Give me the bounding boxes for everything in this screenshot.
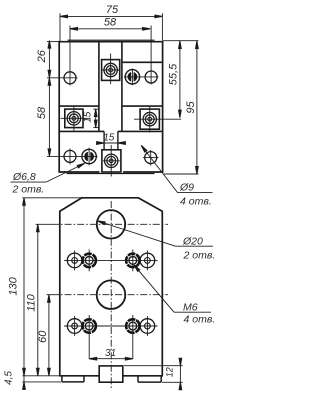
row2 centerline — [64, 325, 158, 327]
small hole vertical centerlines — [75, 250, 148, 359]
top-right block bottom edge — [122, 105, 163, 107]
lower slot wall right — [117, 131, 119, 149]
lower blocks top ledge left — [59, 130, 104, 132]
lower slot wall left — [103, 131, 105, 149]
screw boss square right — [140, 109, 159, 129]
hole bottom-right — [145, 152, 157, 164]
svg-text:110: 110 — [26, 293, 38, 311]
big hole lower — [97, 280, 126, 309]
ext 110 top — [36, 223, 53, 225]
dim 15 bottom line — [97, 142, 126, 144]
bottom view outline — [59, 198, 163, 376]
ext 60 top — [47, 294, 53, 296]
leader dia9 — [141, 145, 177, 192]
screw boss square bottom — [102, 150, 121, 172]
ext 130 top — [22, 197, 84, 199]
svg-text:31: 31 — [105, 348, 116, 359]
arrowheads — [23, 15, 199, 390]
top-left block bottom edge — [59, 105, 99, 107]
bushing top-right dark — [125, 70, 139, 84]
threaded hole r2 right — [126, 319, 139, 332]
svg-text:60: 60 — [37, 330, 49, 343]
vertical axis dash-dot — [110, 201, 112, 389]
svg-text:15: 15 — [82, 111, 93, 123]
svg-text:Ø20: Ø20 — [182, 236, 203, 248]
svg-text:95: 95 — [185, 101, 197, 114]
channel right wall — [121, 42, 123, 132]
ext 15 left top — [93, 108, 98, 110]
big hole upper — [97, 210, 125, 238]
dim 4,5 tail — [23, 376, 25, 390]
ext 12 top — [124, 365, 183, 367]
screw head bottom — [105, 154, 118, 167]
washer r1 left — [67, 253, 82, 268]
dim 55,5 line — [179, 41, 181, 118]
washer r2 left — [67, 319, 82, 334]
threaded hole r1 right — [126, 254, 139, 267]
svg-text:2 отв.: 2 отв. — [183, 250, 216, 262]
svg-text:4 отв.: 4 отв. — [184, 314, 216, 326]
screw head top — [104, 63, 117, 76]
lower blocks top ledge right — [118, 130, 163, 132]
dim 15 left line — [95, 109, 97, 128]
screw boss square top — [102, 60, 120, 81]
dim 110 line — [37, 224, 39, 375]
leader M6 — [134, 265, 174, 312]
dim 95 line — [196, 41, 198, 174]
dim 31 line — [89, 358, 133, 360]
row1 centerline — [64, 259, 158, 261]
right foot tab — [138, 376, 161, 382]
dim 75 ext right — [161, 13, 163, 40]
svg-text:55,5: 55,5 — [167, 63, 179, 85]
channel left wall — [98, 42, 100, 132]
svg-text:130: 130 — [8, 276, 20, 295]
leader dia6.8 — [46, 163, 85, 182]
top-right block step line — [122, 61, 163, 63]
svg-text:58: 58 — [104, 17, 117, 29]
leader dia20 — [98, 221, 176, 246]
dim 60 line — [48, 295, 50, 376]
threaded hole r2 left — [83, 319, 96, 332]
svg-text:4,5: 4,5 — [3, 371, 14, 385]
svg-text:4 отв.: 4 отв. — [180, 196, 212, 208]
bottom lip edge — [67, 173, 155, 175]
ext 15 left bottom — [93, 127, 98, 129]
ext 4,5 bottom — [22, 381, 61, 383]
hole top-right — [145, 71, 157, 83]
top lip edge — [68, 39, 155, 41]
top view outline — [58, 42, 163, 172]
ext 12 bottom — [162, 381, 183, 383]
svg-text:15: 15 — [103, 132, 115, 143]
svg-text:2 отв.: 2 отв. — [12, 184, 45, 196]
dim 12 line — [179, 361, 181, 388]
screw head left — [67, 112, 80, 125]
dim 75 ext left — [59, 13, 61, 41]
svg-text:Ø9: Ø9 — [179, 181, 194, 193]
big hole upper centerline — [52, 223, 168, 225]
ext 26 top — [47, 41, 59, 43]
threaded hole r1 left — [83, 254, 96, 267]
centerlines top view — [47, 26, 181, 177]
dim 58 top line — [70, 28, 150, 30]
dim 26-58 left line — [48, 41, 50, 157]
hole bottom-left — [64, 150, 76, 162]
washer r2 right — [140, 319, 155, 334]
screw boss square left — [65, 109, 83, 128]
bushing bottom-left dark — [82, 149, 96, 163]
dim 130 line — [23, 198, 25, 376]
washer r1 right — [140, 253, 155, 268]
left foot tab — [62, 376, 84, 382]
hole top-left — [64, 72, 76, 84]
central boss block — [99, 366, 123, 382]
svg-text:26: 26 — [36, 49, 48, 63]
ext 95 bottom — [164, 173, 199, 175]
dim 75 line — [60, 15, 162, 17]
ext bottom shared — [22, 375, 59, 377]
svg-text:75: 75 — [106, 4, 119, 16]
ext top right shared — [163, 40, 199, 42]
big hole lower centerline — [52, 294, 168, 296]
svg-text:M6: M6 — [183, 302, 198, 314]
svg-text:58: 58 — [36, 106, 48, 119]
svg-text:Ø6,8: Ø6,8 — [12, 171, 36, 183]
screw head right — [143, 112, 156, 125]
svg-text:12: 12 — [165, 367, 175, 377]
